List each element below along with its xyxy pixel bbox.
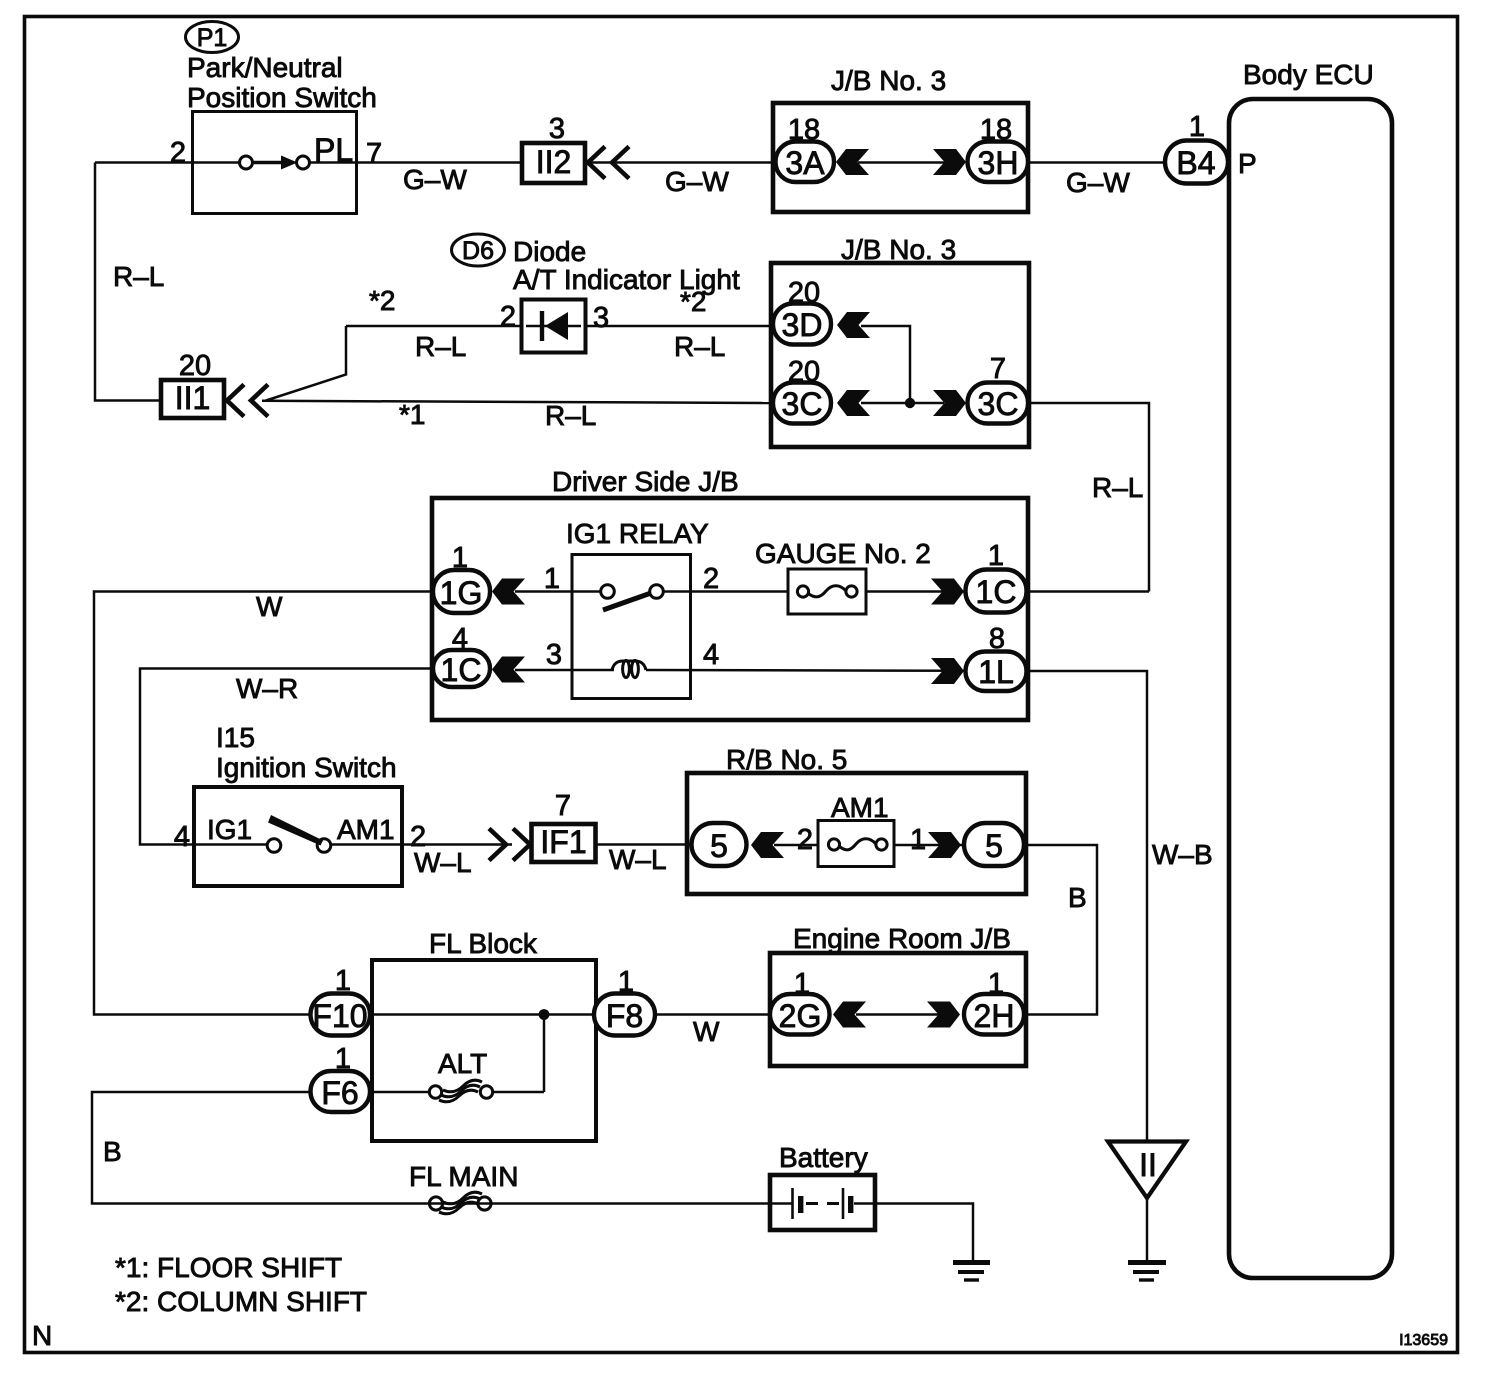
svg-text:I15: I15 xyxy=(216,722,255,753)
svg-text:3: 3 xyxy=(546,639,562,671)
wire fuse AM1 to 5 right xyxy=(894,844,965,847)
wire F6 to ALT link xyxy=(370,1091,430,1094)
terminal F10 xyxy=(311,994,371,1036)
wire 5 right to 2H xyxy=(1024,845,1097,1015)
diode D6 box xyxy=(522,300,586,353)
junction arrow at 3H xyxy=(933,149,966,175)
svg-text:3H: 3H xyxy=(978,145,1019,181)
svg-text:4: 4 xyxy=(174,821,190,853)
chevrons at IF1 xyxy=(489,829,530,861)
svg-text:5: 5 xyxy=(985,828,1003,864)
wire IF1 to 5 xyxy=(596,843,692,846)
junction arrow at 3C left xyxy=(837,390,870,416)
svg-text:R–L: R–L xyxy=(415,331,466,362)
svg-text:FL Block: FL Block xyxy=(429,928,538,959)
wire pin2 to left xyxy=(95,161,192,164)
svg-text:AM1: AM1 xyxy=(831,792,889,823)
svg-text:1: 1 xyxy=(910,824,926,856)
svg-text:2: 2 xyxy=(797,824,813,856)
svg-text:Ignition Switch: Ignition Switch xyxy=(216,752,397,783)
terminal 2G xyxy=(770,994,830,1035)
svg-text:II1: II1 xyxy=(175,380,211,416)
svg-text:3C: 3C xyxy=(782,386,823,422)
junction arrow at 5 right xyxy=(928,832,961,858)
terminal 3D xyxy=(773,304,831,345)
IG1 relay box xyxy=(572,555,691,699)
terminal F6 xyxy=(311,1071,371,1112)
wire B from F6 xyxy=(92,1092,770,1204)
wire branch *2 vertical and diagonal xyxy=(266,326,346,401)
chevrons at II1 xyxy=(227,385,268,417)
chevrons at II2 xyxy=(588,147,629,179)
J/B No. 3 box (top) xyxy=(773,103,1028,212)
wire II1 to 3C xyxy=(262,401,774,403)
svg-text:D6: D6 xyxy=(462,237,494,265)
svg-text:I13659: I13659 xyxy=(1399,1332,1448,1349)
wire F10 to F8 xyxy=(370,1013,595,1016)
svg-text:5: 5 xyxy=(710,828,728,864)
svg-text:R–L: R–L xyxy=(674,331,725,362)
wire coil to 1L xyxy=(646,669,966,672)
svg-text:2H: 2H xyxy=(974,998,1015,1034)
wire R-L vertical left xyxy=(95,163,161,401)
svg-text:ALT: ALT xyxy=(438,1048,487,1079)
wire fuse to 1C xyxy=(866,590,966,593)
wire pin7 to II2 xyxy=(357,161,522,164)
ignition switch box xyxy=(194,787,402,886)
svg-text:7: 7 xyxy=(990,353,1006,385)
terminal 1C left xyxy=(433,650,490,688)
svg-text:W–B: W–B xyxy=(1152,839,1213,870)
svg-text:G–W: G–W xyxy=(665,166,729,197)
terminal 5 right xyxy=(964,823,1024,866)
junction arrow at 3D xyxy=(837,312,870,338)
wire 3C left to 3C right xyxy=(861,402,944,405)
svg-text:R–L: R–L xyxy=(113,261,164,292)
svg-text:IF1: IF1 xyxy=(540,824,586,860)
terminal 3C left xyxy=(773,383,831,424)
svg-text:4: 4 xyxy=(703,639,719,671)
Driver Side J/B box xyxy=(432,498,1028,720)
svg-text:2: 2 xyxy=(500,301,516,333)
svg-text:7: 7 xyxy=(555,790,571,822)
junction arrow at 3A xyxy=(836,149,869,175)
junction node dot xyxy=(905,398,915,408)
junction arrow at 2G xyxy=(833,1002,866,1028)
svg-text:B4: B4 xyxy=(1176,145,1215,181)
diode symbol xyxy=(526,311,581,341)
connector D6 label xyxy=(452,234,505,266)
junction arrow at 5 left xyxy=(751,832,784,858)
svg-text:J/B No. 3: J/B No. 3 xyxy=(841,234,956,265)
svg-text:W–L: W–L xyxy=(609,844,667,875)
battery cells xyxy=(770,1188,875,1219)
connector P1 label xyxy=(186,22,239,53)
svg-text:GAUGE No. 2: GAUGE No. 2 xyxy=(755,538,931,569)
svg-text:*2: *2 xyxy=(680,286,706,317)
junction arrow at 1L xyxy=(931,658,964,684)
svg-text:1G: 1G xyxy=(440,575,483,611)
svg-text:B: B xyxy=(103,1136,122,1167)
wire II2 to 3A xyxy=(590,161,776,164)
junction arrow at 1G xyxy=(492,579,525,605)
terminal 1L xyxy=(966,652,1027,692)
wire junction down to ALT xyxy=(543,1015,546,1093)
svg-text:3: 3 xyxy=(593,302,609,334)
svg-text:*2: COLUMN SHIFT: *2: COLUMN SHIFT xyxy=(115,1286,367,1317)
svg-text:1: 1 xyxy=(988,540,1004,572)
relay contacts xyxy=(601,585,664,610)
wire 3C right to R-L vertical xyxy=(1028,403,1149,592)
svg-text:R–L: R–L xyxy=(1092,472,1143,503)
svg-text:IG1: IG1 xyxy=(207,814,252,845)
switch P1 contacts xyxy=(192,156,357,170)
terminal 3C right xyxy=(968,383,1029,424)
svg-text:G–W: G–W xyxy=(1066,167,1130,198)
wire 3A to 3H xyxy=(858,161,945,164)
svg-text:W–L: W–L xyxy=(414,847,472,878)
svg-text:2: 2 xyxy=(170,137,186,169)
svg-text:3D: 3D xyxy=(782,307,823,343)
svg-text:3C: 3C xyxy=(978,386,1019,422)
wire W from 1G xyxy=(94,592,433,1015)
connector II2 xyxy=(522,143,585,183)
svg-text:2G: 2G xyxy=(779,998,822,1034)
svg-text:*1: *1 xyxy=(399,399,425,430)
terminal 1C right xyxy=(966,570,1027,613)
svg-text:1L: 1L xyxy=(978,654,1014,690)
svg-text:*2: *2 xyxy=(369,285,395,316)
switch P1 box xyxy=(193,112,357,214)
svg-text:Driver Side J/B: Driver Side J/B xyxy=(552,466,739,497)
wire ALT to junction vertical xyxy=(493,1091,544,1094)
svg-text:B: B xyxy=(1068,882,1087,913)
fuse GAUGE No. 2 xyxy=(788,569,866,614)
J/B No. 3 box (second) xyxy=(771,263,1029,447)
wire relay to fuse xyxy=(664,590,788,593)
junction arrow at 3C right xyxy=(933,390,966,416)
svg-text:II2: II2 xyxy=(536,144,572,180)
ground at battery xyxy=(953,1263,990,1281)
svg-text:Park/Neutral: Park/Neutral xyxy=(187,52,343,83)
svg-text:1C: 1C xyxy=(976,574,1017,610)
junction arrow at 2H xyxy=(927,1002,960,1028)
svg-text:P1: P1 xyxy=(197,24,228,52)
svg-text:P: P xyxy=(1238,148,1257,179)
wire 2G to 2H xyxy=(856,1013,941,1016)
ground at triangle xyxy=(1128,1263,1166,1281)
connector II1 xyxy=(161,380,224,418)
svg-text:FL MAIN: FL MAIN xyxy=(409,1161,518,1192)
battery box xyxy=(770,1175,875,1230)
wire branch *2 to diode xyxy=(346,325,521,328)
svg-text:7: 7 xyxy=(366,138,382,170)
wire 3H to B4 xyxy=(1028,161,1166,164)
svg-text:1C: 1C xyxy=(441,652,482,688)
svg-text:3A: 3A xyxy=(785,145,825,181)
svg-text:W: W xyxy=(693,1016,720,1047)
terminal F8 xyxy=(594,994,655,1036)
svg-text:Battery: Battery xyxy=(779,1142,868,1173)
wire F8 to 2G xyxy=(655,1013,771,1016)
relay coil xyxy=(612,660,646,677)
wire W-R from 1C left xyxy=(140,669,433,845)
Body ECU box xyxy=(1229,99,1392,1278)
svg-text:II: II xyxy=(1139,1147,1157,1183)
ignition switch contacts xyxy=(194,815,402,852)
junction arrow at 1C left xyxy=(492,657,525,683)
wire 1C right to R-L vertical xyxy=(1026,590,1149,593)
svg-text:J/B No. 3: J/B No. 3 xyxy=(831,65,946,96)
svg-text:W–R: W–R xyxy=(236,673,298,704)
wire 1G to relay xyxy=(515,590,601,593)
ground triangle II xyxy=(1108,1142,1186,1199)
svg-text:F6: F6 xyxy=(321,1075,358,1111)
junction arrow at 1C right xyxy=(931,579,964,605)
terminal 5 left xyxy=(692,823,747,866)
FL Block box xyxy=(372,960,596,1141)
svg-text:Diode: Diode xyxy=(513,236,586,267)
terminal 3A xyxy=(776,142,835,183)
svg-text:AM1: AM1 xyxy=(337,814,395,845)
svg-text:3: 3 xyxy=(549,113,565,145)
svg-text:PL: PL xyxy=(314,132,353,168)
svg-text:*1: FLOOR SHIFT: *1: FLOOR SHIFT xyxy=(115,1252,342,1283)
wire 5 left to fuse AM1 xyxy=(774,844,818,847)
wire triangle to ground xyxy=(1146,1198,1149,1261)
Engine Room J/B box xyxy=(770,953,1026,1066)
svg-text:Engine Room J/B: Engine Room J/B xyxy=(793,923,1011,954)
fusible link FL MAIN xyxy=(429,1192,491,1214)
svg-text:2: 2 xyxy=(703,563,719,595)
svg-text:Position Switch: Position Switch xyxy=(187,82,377,113)
R/B No. 5 box xyxy=(687,773,1026,894)
wire 3D to junction vertical xyxy=(861,326,910,403)
wire battery to ground xyxy=(875,1204,973,1262)
fuse AM1 xyxy=(818,821,894,867)
svg-text:20: 20 xyxy=(179,350,211,382)
wire diode to 3D xyxy=(586,325,774,328)
connector IF1 xyxy=(532,824,596,862)
wire ignition to chevrons xyxy=(402,843,512,846)
svg-text:F8: F8 xyxy=(606,998,643,1034)
svg-text:W: W xyxy=(256,591,283,622)
terminal 1G xyxy=(433,570,490,613)
svg-text:R/B No. 5: R/B No. 5 xyxy=(726,744,847,775)
junction node in FL block xyxy=(539,1009,550,1020)
svg-text:1: 1 xyxy=(544,563,560,595)
svg-text:G–W: G–W xyxy=(403,164,467,195)
terminal 3H xyxy=(968,142,1029,183)
terminal 2H xyxy=(964,994,1024,1035)
svg-text:1: 1 xyxy=(1189,111,1205,143)
wire 1L to W-B vertical xyxy=(1026,671,1147,1141)
svg-text:F10: F10 xyxy=(312,998,367,1034)
svg-text:IG1 RELAY: IG1 RELAY xyxy=(566,518,709,549)
wire 1C left to relay coil xyxy=(515,669,614,672)
terminal B4 xyxy=(1165,141,1228,184)
svg-text:N: N xyxy=(32,1320,52,1351)
svg-text:R–L: R–L xyxy=(545,400,596,431)
svg-text:Body ECU: Body ECU xyxy=(1243,59,1374,90)
fusible link ALT xyxy=(429,1080,492,1102)
